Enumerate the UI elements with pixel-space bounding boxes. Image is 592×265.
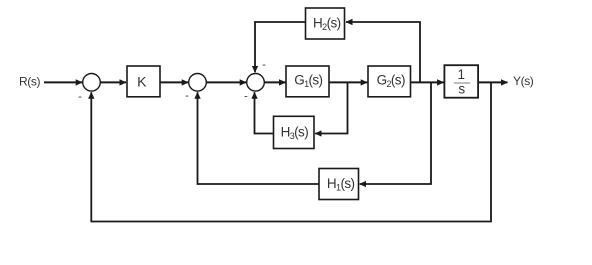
wire K to summing junction S2 <box>160 81 188 83</box>
wire tap after G1 down to H3 input <box>315 82 347 133</box>
summing junction S3 <box>247 74 265 92</box>
wire integrator to Y(s) output <box>478 81 507 83</box>
wire output feedback outer loop to S1 <box>91 82 491 221</box>
svg-text:G1(s): G1(s) <box>294 73 322 90</box>
svg-text:-: - <box>244 91 248 103</box>
wire tap before integrator down to H1 input <box>360 82 431 184</box>
wire S3 to G1 <box>264 81 285 83</box>
svg-text:R(s): R(s) <box>19 74 40 88</box>
svg-text:H2(s): H2(s) <box>313 16 341 33</box>
svg-text:-: - <box>78 91 82 103</box>
wire H2 output down to S3 <box>255 22 306 72</box>
wire H1 output up to S2 <box>198 92 320 184</box>
svg-text:H1(s): H1(s) <box>327 176 355 193</box>
block H3(s) <box>274 116 315 148</box>
wire R(s) to summing junction S1 <box>44 81 82 83</box>
wire G1 to G2 with tap node <box>329 81 367 83</box>
wire G2 to integrator <box>411 81 444 83</box>
block H2(s) <box>306 8 345 39</box>
svg-text:-: - <box>185 90 189 102</box>
block H1(s) <box>319 169 359 200</box>
summing junction S2 <box>189 74 207 92</box>
summing junction S1 <box>83 74 101 92</box>
wire tap after G2 up to H2 input <box>346 22 420 82</box>
block G1(s) <box>286 66 329 97</box>
svg-text:s: s <box>458 82 465 97</box>
wire H3 output up to S3 <box>255 92 274 133</box>
svg-text:-: - <box>262 59 266 71</box>
integrator block 1/s <box>444 65 478 98</box>
svg-text:1: 1 <box>458 67 466 82</box>
svg-text:H3(s): H3(s) <box>281 124 309 141</box>
svg-text:Y(s): Y(s) <box>513 74 534 88</box>
wire S1 to K <box>100 81 126 83</box>
svg-text:K: K <box>137 73 147 89</box>
svg-text:G2(s): G2(s) <box>377 73 405 90</box>
wire S2 to summing junction S3 <box>206 81 246 83</box>
gain block K <box>127 66 160 97</box>
block G2(s) <box>368 66 411 97</box>
